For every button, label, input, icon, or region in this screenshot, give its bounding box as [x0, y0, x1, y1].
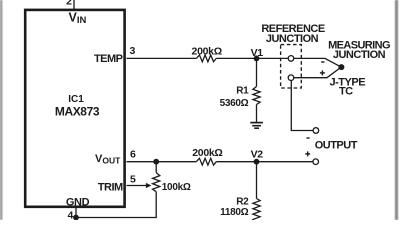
svg-text:V1: V1 [251, 47, 264, 59]
svg-text:100kΩ: 100kΩ [162, 182, 191, 193]
wire pot top [155, 162, 157, 173]
svg-text:R1: R1 [236, 86, 249, 97]
svg-text:200kΩ: 200kΩ [192, 45, 222, 57]
op-amp/IC U1 box IC1 MAX873 [25, 10, 124, 207]
wire bottom terminal to TC junction [294, 67, 341, 78]
svg-text:IC1: IC1 [68, 94, 84, 105]
minus polarity at output [307, 137, 310, 139]
svg-text:2: 2 [66, 0, 72, 8]
wire R1 to ground [256, 105, 258, 123]
wire V1 to reference junction [257, 57, 289, 59]
reference junction top terminal [288, 56, 294, 62]
left page border [0, 0, 2, 220]
right page border [395, 0, 398, 220]
svg-text:5: 5 [130, 173, 136, 185]
reference junction bottom terminal [288, 75, 294, 81]
output minus terminal [313, 128, 319, 134]
wire TRIM to pot arrow [127, 185, 148, 187]
wire V1 down to R1 [256, 58, 258, 86]
plus polarity at output [305, 151, 310, 156]
wire GND pin4 down [75, 207, 77, 218]
wire R200k to V1 [216, 57, 256, 59]
ground symbol [250, 123, 263, 129]
node V2 junction dot [254, 159, 260, 165]
svg-text:OUTPUT: OUTPUT [315, 139, 358, 151]
svg-text:TEMP: TEMP [94, 53, 123, 65]
svg-text:MAX873: MAX873 [55, 105, 100, 119]
svg-text:TRIM: TRIM [98, 181, 123, 193]
pin4 junction dot [73, 215, 79, 221]
plus polarity at TC [320, 70, 325, 75]
svg-text:JUNCTION: JUNCTION [266, 33, 319, 45]
wire pin4 to pot bottom [76, 217, 157, 219]
svg-text:JUNCTION: JUNCTION [333, 49, 386, 61]
svg-text:1180Ω: 1180Ω [220, 207, 248, 218]
wire TEMP to R 200k [127, 57, 197, 59]
wire pin2 VIN [73, 0, 75, 10]
svg-text:5360Ω: 5360Ω [220, 98, 249, 109]
svg-text:6: 6 [130, 149, 136, 161]
svg-text:V2: V2 [251, 148, 264, 160]
resistor 200k (bottom) [196, 158, 216, 165]
resistor 200k (top) [196, 55, 216, 62]
node V1 junction dot [254, 56, 260, 62]
wire pot bottom [155, 192, 157, 218]
pot wiper arrow [146, 183, 152, 188]
potentiometer 100k [153, 173, 160, 192]
wire top terminal to TC junction [294, 58, 341, 67]
svg-text:VIN: VIN [69, 10, 87, 26]
wire V2 to output plus [257, 161, 313, 163]
svg-text:3: 3 [130, 45, 136, 57]
wire R200k to V2 [216, 161, 256, 163]
minus polarity at TC [321, 61, 324, 63]
resistor R1 5360 [253, 87, 260, 105]
wire V2 down to R2 [256, 162, 258, 199]
output plus terminal [313, 159, 319, 165]
svg-text:GND: GND [66, 196, 90, 208]
svg-text:VOUT: VOUT [95, 153, 121, 166]
svg-text:4: 4 [68, 210, 74, 220]
svg-text:TC: TC [339, 85, 353, 97]
svg-text:R2: R2 [236, 197, 249, 208]
TC junction dot (measuring junction) [338, 64, 344, 70]
wire ref bottom terminal down [291, 81, 313, 131]
wire VOUT [127, 161, 197, 163]
resistor R2 1180 [253, 199, 260, 224]
junction dot at pot tap [153, 159, 159, 165]
reference junction dashed box [281, 45, 302, 88]
svg-text:200kΩ: 200kΩ [192, 147, 222, 159]
